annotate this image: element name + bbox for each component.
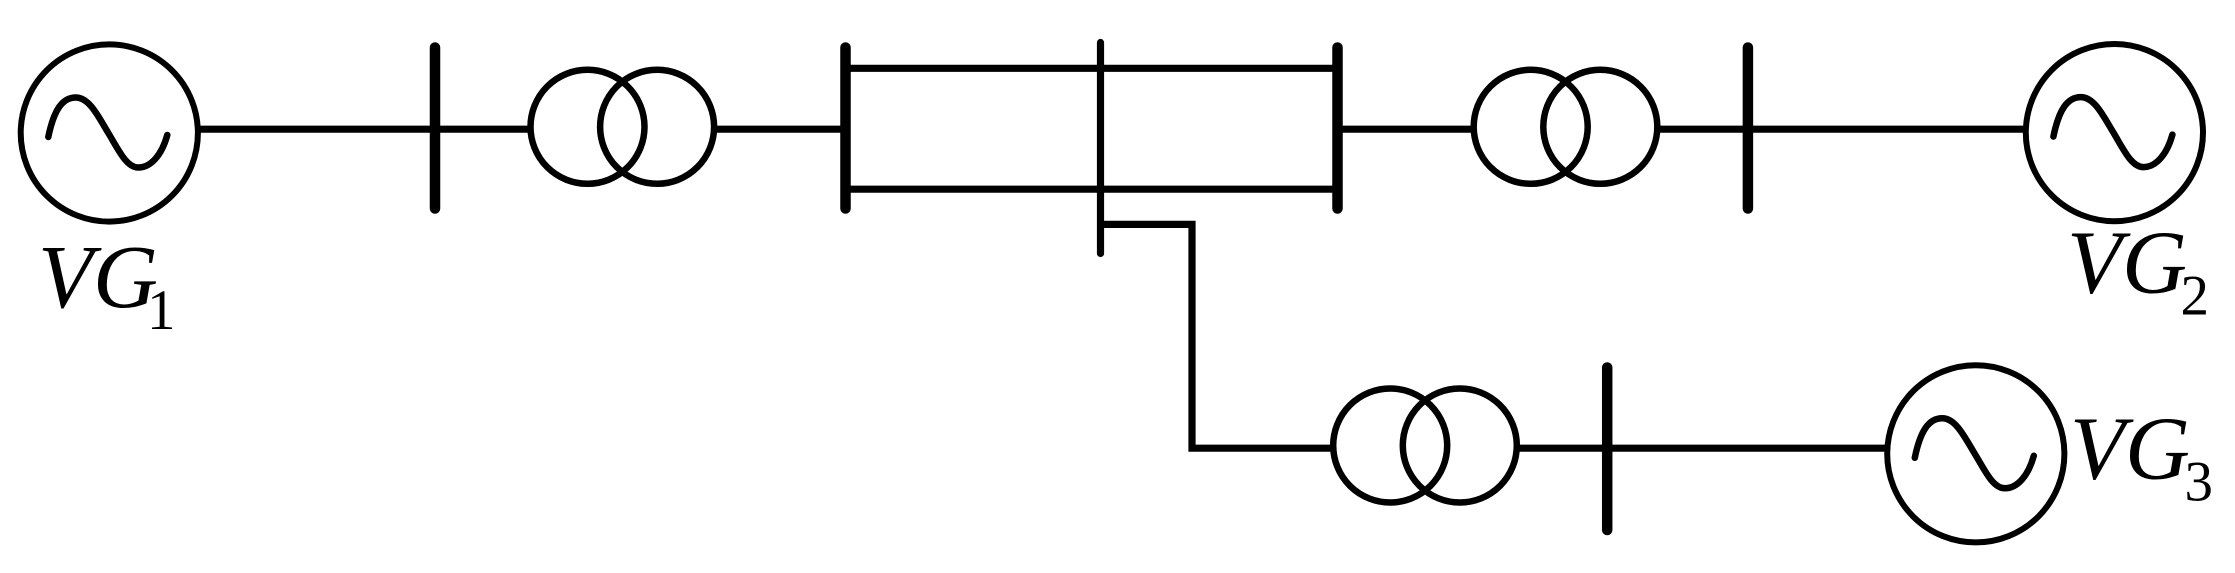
svg-text:VG1: VG1: [38, 228, 175, 342]
